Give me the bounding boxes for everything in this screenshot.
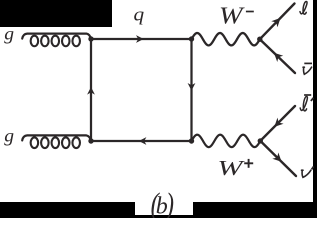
label lepton l (script ell) <box>300 1 307 14</box>
vertex dot bottom-right <box>189 138 194 143</box>
arrow right edge <box>188 83 196 91</box>
gluon g2 (bottom) <box>22 135 91 141</box>
black filler top-left <box>0 0 112 27</box>
superscript plus of W+ <box>244 162 253 164</box>
arrow antilepton <box>274 118 283 127</box>
gluon g1 (top) <box>22 34 91 39</box>
arrow antineutrino <box>274 53 283 62</box>
svg-text:W: W <box>219 2 246 30</box>
svg-text:g: g <box>4 126 14 146</box>
arrow left edge <box>87 87 95 95</box>
black filler bottom-right <box>193 202 317 218</box>
W+ boson wavy line <box>192 135 261 147</box>
arrow top edge <box>136 35 144 43</box>
svg-text:W: W <box>217 157 245 180</box>
antineutrino line nubar <box>260 39 295 73</box>
svg-text:): ) <box>164 188 174 218</box>
vertex dot W- decay <box>257 37 262 42</box>
black filler right edge <box>313 0 317 218</box>
antilepton line lbar-prime <box>260 106 295 141</box>
overbar of nubar <box>304 62 312 64</box>
superscript minus of W- <box>246 11 254 13</box>
arrow neutrino <box>272 153 281 162</box>
prime of lbar-prime <box>311 98 314 101</box>
vertex dot top-left <box>88 36 93 41</box>
label antilepton lbar-prime (script ell) <box>300 96 307 110</box>
arrow bottom edge <box>139 137 147 145</box>
overbar of lbar-prime <box>304 94 311 96</box>
vertex dot bottom-left <box>88 138 93 143</box>
lepton line l <box>260 4 295 40</box>
black filler under (b) <box>135 215 193 218</box>
vertex dot top-right <box>189 36 194 41</box>
svg-text:g: g <box>4 24 14 44</box>
quark box loop <box>91 39 192 141</box>
arrow lepton l <box>271 18 280 27</box>
neutrino line nu-prime <box>260 141 296 176</box>
black filler bottom-left <box>0 202 135 218</box>
label antineutrino nubar <box>303 67 312 74</box>
vertex dot W+ decay <box>258 138 263 143</box>
label neutrino nu-prime <box>302 170 311 177</box>
svg-text:q: q <box>134 5 145 26</box>
W- boson wavy line <box>192 33 260 45</box>
prime of nu-prime <box>312 167 314 170</box>
